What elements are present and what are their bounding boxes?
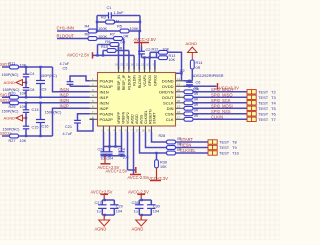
wire rail1 [19,66,53,68]
svg-text:23: 23 [120,63,124,67]
resistor R10 0R [101,44,123,52]
wire groupA bottom node [102,214,114,216]
capacitor C28 1u [132,200,144,215]
svg-text:RESP_IP: RESP_IP [122,74,126,90]
svg-text:VCAP1: VCAP1 [143,75,147,87]
capacitor C1 1.5nF [97,5,140,19]
svg-text:4.7uF: 4.7uF [63,132,73,136]
net label IN1P [60,93,70,98]
svg-text:SPI0_MOSI: SPI0_MOSI [211,104,233,109]
svg-text:C13: C13 [32,108,39,112]
net label SPI0_DRDY [211,87,234,92]
wire C13 to AGND node [25,112,27,126]
net label IN2N [60,98,70,103]
svg-text:10K: 10K [20,91,27,95]
pin PGA2N [90,110,114,117]
svg-text:GPIO1: GPIO1 [148,75,152,86]
power VCC+3.3V right [218,83,240,90]
capacitor C2 [138,47,150,58]
svg-text:18: 18 [177,110,181,114]
svg-text:IN2P: IN2P [100,106,109,111]
wire SIG1+ lead [2,96,10,98]
net label RESN [180,143,191,148]
svg-text:RLDOUT: RLDOUT [57,33,75,38]
svg-text:CLK: CLK [166,117,174,122]
pin AVDD [119,114,134,132]
svg-text:AGND: AGND [95,227,107,232]
wire top pin8 [154,60,156,70]
svg-text:RLDIN: RLDIN [133,75,137,86]
svg-text:START: START [153,112,157,124]
svg-text:DGND: DGND [162,78,174,83]
wire AVSS drop [133,132,135,175]
svg-text:IN1N: IN1N [60,87,70,92]
svg-text:1M: 1M [114,19,119,24]
ground AGND group B [132,215,147,232]
net label SIG1+ [0,93,13,98]
testpoint T9 [208,145,237,150]
svg-text:TEST: TEST [258,106,269,111]
resistor 0R row SPI0_DRDY [184,87,199,94]
testpoint T8 [208,140,237,145]
wire R5 to node B [129,30,141,32]
wire rail4 to IN2P row [53,108,90,136]
svg-text:R39: R39 [160,160,167,164]
svg-text:AGND: AGND [4,80,16,85]
wire AVCC rail [93,54,135,56]
wire rail2 IN1P [19,96,90,98]
svg-text:PGA2N: PGA2N [100,111,114,116]
wire R4 to node [96,30,120,32]
svg-text:10K: 10K [20,139,27,143]
wire C15 to rail4 [25,129,27,136]
svg-text:AVDD: AVDD [130,114,134,124]
capacitor C30 104 [147,200,160,215]
wire RESN from pin [146,132,167,148]
capacitor C29 104 [110,200,123,215]
testpoint T6 [247,111,276,116]
wire DVDD row [184,85,217,87]
testpoint T2 [247,89,276,94]
wire R10 to pin3 wire [116,50,129,52]
svg-text:0R: 0R [194,114,199,118]
resistor 0R RESN [167,142,182,149]
pin GPIO2 [153,63,158,87]
op-amp U2 ADS1292RIPBSR body [98,73,176,127]
wire groupB top node [139,199,151,201]
capacitor C4 150P [2,67,35,77]
wire groupB bottom node [139,214,151,216]
resistor R7 0R [110,31,129,40]
wire top pin3 [128,51,130,70]
resistor R11 10K [9,61,27,69]
wire cap rail bottom [101,155,126,157]
power AVCC-2.5V group B [128,189,149,200]
pin DOUT [162,93,183,100]
svg-text:C24: C24 [118,148,125,152]
svg-text:IN2N: IN2N [60,98,70,103]
wire CH1-INN row [57,30,88,32]
svg-text:C16: C16 [42,125,49,129]
wire CLKSEL to testpoint [176,152,209,154]
svg-text:RESETN: RESETN [148,109,152,124]
svg-text:0R: 0R [194,98,199,102]
svg-text:11: 11 [141,63,144,67]
net label START [180,137,194,142]
capacitor C27 1u [95,200,107,215]
svg-text:SPI0_MISO: SPI0_MISO [211,93,233,98]
svg-text:PGA2P: PGA2P [100,117,114,122]
wire corner stub [176,72,182,74]
wire rail3 IN2N [19,102,90,104]
wire VREFN drop [109,132,111,147]
svg-text:IN1N: IN1N [100,89,109,94]
ground AGND ch2 [4,115,27,121]
wire R7 to pin wire [123,38,124,40]
svg-text:1u: 1u [134,210,138,214]
ground AGND top right [186,41,198,60]
svg-text:104: 104 [107,156,113,160]
pin PGA1N [90,77,114,84]
svg-text:13: 13 [177,82,181,86]
svg-text:AGND: AGND [4,116,16,121]
capacitor C16 150P [36,103,62,136]
pin IN1P [90,93,109,100]
testpoint T3 [247,95,276,100]
pin PGA1P [90,82,114,89]
capacitor C6 104 [186,81,200,92]
svg-text:1.5nF: 1.5nF [114,10,125,15]
svg-text:R11: R11 [9,61,16,65]
wire R8 to R7 [97,38,114,40]
capacitor C13 150P [2,103,39,114]
svg-text:C27: C27 [95,201,102,205]
svg-text:20: 20 [177,99,181,103]
capacitor C8 150P [3,88,35,92]
net label IN2P [60,104,70,109]
svg-text:R4: R4 [85,24,91,29]
wire top pin1 [118,45,120,70]
resistor 0R row SPI0_SCK [184,98,199,105]
wire rail4 [19,135,53,137]
svg-text:16: 16 [130,63,134,67]
svg-text:START: START [180,137,194,142]
capacitor C23 104 [106,147,113,161]
svg-text:RLDINV: RLDINV [138,74,142,88]
wire RESN to testpoint [176,147,209,149]
designator U2 [180,68,186,73]
svg-text:C30: C30 [153,205,160,209]
svg-text:TEST: TEST [219,151,230,156]
pin IN1N [90,88,109,95]
resistor R3 1M [97,15,140,24]
testpoint T7 [247,117,276,122]
svg-text:T7: T7 [271,117,276,122]
wire top pin6 [144,58,146,70]
svg-text:T9: T9 [232,145,237,150]
svg-text:C1: C1 [107,5,112,10]
power AVCC+2.5V avdd [106,167,136,173]
pin PGA2P [90,115,114,122]
pin RESETN [142,109,152,132]
capacitor C5 4.7uF [60,62,90,86]
svg-text:104: 104 [153,209,159,213]
wire SPI0_DRDY row [193,91,247,93]
power AVCC+2.5V group A [91,189,113,200]
svg-text:VREFN: VREFN [122,111,126,124]
svg-text:10K: 10K [169,58,176,62]
svg-text:GPIO2: GPIO2 [153,75,157,86]
svg-text:T8: T8 [232,140,237,145]
svg-text:DVDD: DVDD [162,84,173,89]
pin DIN [167,104,184,111]
net label RLDOUT [57,33,75,38]
capacitor C21 4.7uF [63,114,94,136]
svg-text:R27: R27 [9,139,16,143]
svg-text:TEST: TEST [258,95,269,100]
wire SPI0_SCK row [193,102,247,104]
pin AVDD [125,114,138,132]
wire SIG2+ lead [2,135,10,137]
svg-text:150P(NC): 150P(NC) [2,73,20,77]
net label SPI0_MOSI [211,104,233,109]
net label SIG2- [0,98,12,103]
svg-text:VCAP2: VCAP2 [126,112,130,124]
pin VREFN [107,111,125,132]
svg-text:DIN: DIN [167,106,174,111]
svg-text:C21: C21 [65,125,72,129]
wire top pin7 [149,58,151,70]
svg-text:C6: C6 [196,81,201,85]
testpoint T10 [208,151,240,156]
wire AVDD2 drop [128,132,136,170]
power AVCC-2.5V [128,175,149,181]
svg-text:0R: 0R [124,34,129,39]
resistor R12 10K [150,47,170,54]
wire top pin4 [133,55,135,69]
svg-text:CH1-INN: CH1-INN [57,25,74,30]
svg-text:C9: C9 [42,88,47,92]
pin DGND [162,77,184,84]
svg-text:R3: R3 [101,15,106,20]
svg-text:DRDYN: DRDYN [159,89,173,94]
svg-text:10u: 10u [101,156,107,160]
svg-text:CSN: CSN [165,111,174,116]
resistor R9 0R [98,39,126,46]
svg-text:AGND: AGND [186,41,198,46]
svg-text:26: 26 [142,128,146,132]
pin DVDD [162,82,183,89]
svg-text:150P(NC): 150P(NC) [40,74,58,78]
pin RLDOUT [125,63,131,90]
svg-text:AVDD: AVDD [135,114,139,124]
capacitor C15 150P [3,125,39,131]
resistor 0R row SPI0_MISO [184,92,199,99]
svg-text:AVCC+2.5V: AVCC+2.5V [106,168,128,173]
svg-text:R10: R10 [101,44,109,49]
svg-text:C4: C4 [30,72,35,76]
svg-text:0R: 0R [194,103,199,107]
wire DGND row [184,80,193,82]
net label SIG2+ [0,131,13,136]
svg-text:U2: U2 [180,68,186,73]
svg-text:R8: R8 [85,31,90,36]
wire R14 to DGND row [191,69,193,81]
svg-text:0R: 0R [194,87,199,91]
wire C1/R3 loop left [96,16,98,32]
resistor R27 10K [9,134,27,143]
svg-text:T6: T6 [271,111,276,116]
wire R12 feed drop [149,52,151,57]
svg-text:AVCC+2.5V: AVCC+2.5V [134,37,157,42]
net label SPI0_MISO [211,93,233,98]
wire CLKSEL from pin [140,132,167,153]
resistor R20 10K [9,91,27,99]
svg-text:C28: C28 [132,201,139,205]
svg-text:R14: R14 [196,61,203,65]
testpoint T5 [247,106,276,111]
svg-text:150P(NC): 150P(NC) [45,110,63,114]
svg-text:IN2P: IN2P [60,104,70,109]
svg-text:C26: C26 [98,148,105,152]
svg-text:R20: R20 [9,91,16,95]
wire CLKIN row [193,118,247,120]
net label SIG1- [0,62,12,67]
resistor 0R row SPI0_NSS [184,109,199,116]
svg-text:15: 15 [125,63,129,67]
svg-text:R7: R7 [110,31,115,36]
ground AGND group A [95,215,110,232]
wire START to testpoint [176,141,209,143]
svg-text:22: 22 [177,88,181,92]
pin VREFP [101,111,121,132]
pin CLK [166,115,184,122]
svg-text:C29: C29 [116,205,123,209]
pin SCLK [163,99,183,106]
wire START from pin [152,132,167,142]
svg-text:C2: C2 [146,47,151,52]
wire C4 to AGND node [25,77,27,88]
pin RESP_IP [120,63,126,91]
wire C2 bottom rail [142,56,157,58]
wire groupA top node [102,199,114,201]
wire SIG2- lead [2,102,10,104]
designator R28 [159,134,166,138]
svg-text:TEST: TEST [219,140,230,145]
power AVCC+2.5V mid [134,37,157,47]
wire RLDOUT row [57,38,88,40]
resistor R39 10K [155,152,168,169]
svg-text:AVSS: AVSS [139,114,143,124]
svg-text:C15: C15 [32,125,39,129]
svg-text:C5: C5 [63,67,68,71]
svg-text:27: 27 [136,128,140,132]
pin AVSS [131,114,143,132]
testpoint T4 [247,100,276,105]
power AVCC+2.5V cap rail [98,156,120,170]
svg-text:RESN: RESN [180,143,191,148]
pin VCAP2 [113,112,130,132]
net label CH1-INN [57,25,74,30]
wire R10 left drop [102,51,104,56]
svg-text:TEST: TEST [258,89,269,94]
pin RESP_IN [115,63,121,91]
pin IN2N [90,99,109,106]
svg-text:T2: T2 [271,89,276,94]
svg-text:TEST: TEST [258,111,269,116]
capacitor C9 150P [36,67,58,97]
svg-text:T3: T3 [271,95,276,100]
resistor 0R row CLKIN [184,114,199,121]
svg-text:10K: 10K [160,165,167,169]
resistor R5 100K [117,24,139,33]
capacitor C26 10u [98,147,107,161]
wire rail1 to IN1N row [53,67,90,92]
resistor R25 10K [9,101,27,109]
pin RLDINV [136,63,142,89]
svg-text:AGND: AGND [132,227,144,232]
svg-text:AVCC+2.5V: AVCC+2.5V [67,53,90,58]
svg-text:1u: 1u [97,210,101,214]
svg-text:CLKSEL: CLKSEL [144,110,148,124]
wire VREFP drop [103,132,105,147]
net label SPI0_SCK [211,98,231,103]
svg-text:4.7uF: 4.7uF [60,62,70,66]
svg-text:21: 21 [177,93,181,97]
svg-text:CLKSEL: CLKSEL [180,148,196,153]
svg-text:SPI0_SCK: SPI0_SCK [211,98,231,103]
wire C8 to rail2 [25,90,27,97]
pin DRDYN [159,88,183,95]
svg-text:R28: R28 [159,134,166,138]
svg-text:10K: 10K [163,47,170,51]
svg-text:R5: R5 [117,24,122,29]
wire VCAP2 drop [115,132,117,147]
svg-text:R25: R25 [9,105,16,109]
svg-text:VCC+3.3V: VCC+3.3V [148,176,168,181]
svg-text:TEST: TEST [258,100,269,105]
value ADS1292RIPBSR [192,73,224,78]
svg-text:SPI0_DRDY: SPI0_DRDY [211,87,234,92]
svg-text:R12: R12 [152,47,159,51]
svg-text:19: 19 [177,104,181,108]
svg-text:ADS1292RIPBSR: ADS1292RIPBSR [192,73,224,78]
svg-text:24: 24 [115,63,119,67]
svg-text:0R: 0R [194,92,199,96]
resistor 0R row SPI0_MOSI [184,103,199,110]
svg-text:T5: T5 [271,106,276,111]
resistor R8 100K [85,31,108,40]
capacitor C24 104 [118,147,129,160]
svg-text:RESP_IN: RESP_IN [117,75,121,91]
svg-text:10: 10 [146,63,150,67]
wire SPI0_MOSI row [193,107,247,109]
resistor R14 0R [190,60,202,70]
svg-text:25: 25 [148,128,152,132]
resistor R13 10K [157,52,176,62]
svg-text:CLKIN: CLKIN [211,115,223,120]
svg-text:VREFP: VREFP [117,111,121,124]
svg-text:SCLK: SCLK [163,100,174,105]
svg-text:RLDOUT: RLDOUT [127,74,131,90]
wire R12 to DGND column [168,52,183,81]
wire top pin2 [123,39,125,70]
net label CLKSEL [180,148,196,153]
svg-text:104: 104 [116,209,122,213]
wire cap rail top [104,145,122,147]
svg-text:17: 17 [177,115,181,119]
svg-text:PGA1N: PGA1N [100,78,114,83]
